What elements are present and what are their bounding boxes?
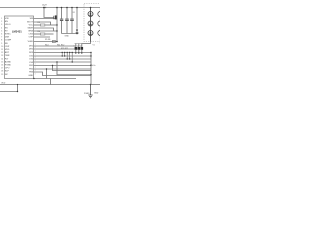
svg-text:R21 R22: R21 R22	[61, 48, 68, 50]
svg-text:V1: V1	[93, 44, 95, 46]
pin wire FB1	[34, 65, 92, 67]
junction dot gnd wire	[33, 78, 34, 79]
pin wire BOOT	[34, 22, 51, 25]
svg-text:18: 18	[1, 71, 3, 73]
svg-text:7: 7	[1, 37, 2, 39]
wire stair branch 3	[46, 69, 48, 79]
svg-text:R14: R14	[45, 44, 48, 46]
wire stair branch 2	[53, 66, 92, 71]
resistor R7	[52, 41, 55, 43]
wire switch node vertical	[56, 8, 58, 42]
bottom rail GND	[0, 84, 100, 86]
svg-text:OVP: OVP	[29, 37, 34, 39]
node VC tick	[91, 64, 93, 66]
pin wire GND bottom	[34, 78, 77, 80]
svg-text:R11 R12: R11 R12	[57, 45, 64, 47]
LED string 2 partial	[98, 8, 103, 42]
wire bottom left return	[0, 85, 18, 92]
wire string1 return	[82, 42, 91, 48]
wire VIN top rail	[0, 7, 100, 9]
svg-text:LM3431: LM3431	[12, 29, 22, 33]
svg-text:8: 8	[1, 40, 2, 42]
pin wire DR2	[34, 48, 78, 50]
svg-text:SLP: SLP	[5, 71, 10, 73]
svg-text:PGND: PGND	[5, 65, 12, 67]
svg-text:UVLO: UVLO	[5, 24, 11, 26]
svg-text:10: 10	[1, 46, 3, 48]
svg-text:VLED: VLED	[28, 41, 34, 43]
svg-text:Vo: Vo	[93, 65, 95, 67]
wire Q3 source	[78, 50, 80, 53]
pin wire CSG w resistor	[34, 33, 41, 35]
svg-text:13: 13	[1, 55, 3, 57]
pin wire GATE	[34, 28, 54, 31]
wire to bottom rail	[50, 79, 52, 85]
junction dot stair1	[56, 61, 57, 62]
svg-text:OVP: OVP	[5, 46, 10, 48]
pin wire CS1	[34, 55, 92, 57]
svg-text:SYNC: SYNC	[5, 34, 11, 36]
capacitor C3	[71, 8, 73, 19]
wire gate drive vertical	[44, 8, 54, 18]
sense taps	[62, 53, 72, 63]
pin wire SW	[34, 18, 58, 20]
svg-text:CPO: CPO	[5, 68, 10, 70]
svg-text:GND: GND	[65, 36, 70, 38]
pin wire CS3	[34, 61, 92, 63]
svg-text:VCC: VCC	[29, 25, 34, 27]
junction dots sense row	[62, 52, 63, 53]
junction dot stair2	[52, 65, 53, 66]
svg-text:NC: NC	[5, 74, 9, 76]
junction dot bottom left	[17, 91, 18, 92]
wire string2 return	[99, 42, 101, 44]
pin wire FB3	[34, 72, 92, 76]
ground	[88, 85, 92, 98]
svg-text:GND: GND	[94, 93, 99, 95]
svg-text:PGND: PGND	[84, 93, 90, 95]
svg-text:17: 17	[1, 68, 3, 70]
wire Q4 source	[81, 50, 83, 53]
svg-text:GND: GND	[28, 75, 33, 77]
LED string 1	[88, 8, 93, 42]
svg-text:DIM: DIM	[5, 37, 9, 39]
dashed box LED array	[84, 4, 101, 42]
svg-text:6: 6	[1, 34, 2, 36]
transistor Q3	[78, 47, 81, 50]
svg-text:11: 11	[1, 49, 3, 51]
wire ground bus	[62, 33, 79, 35]
transistor Q4	[81, 47, 84, 50]
pin wire ISNS	[34, 30, 58, 32]
IC U1 LM3431	[5, 16, 34, 79]
svg-text:BRT: BRT	[5, 52, 10, 54]
pin wire FB2	[34, 68, 92, 70]
svg-text:VDD: VDD	[5, 49, 10, 51]
svg-text:GATE: GATE	[27, 27, 33, 30]
svg-text:14: 14	[1, 58, 3, 60]
svg-text:16: 16	[1, 65, 3, 67]
svg-text:1: 1	[1, 18, 2, 20]
pin wire OVP	[34, 36, 51, 38]
zener D2	[76, 8, 78, 29]
svg-text:12: 12	[1, 52, 3, 54]
junction dot zener-bus	[76, 33, 78, 35]
svg-text:CSG: CSG	[28, 34, 33, 36]
svg-text:19: 19	[1, 74, 3, 76]
junction dot SW-VLED	[56, 41, 58, 43]
value labels	[1, 4, 99, 95]
pin wire VCC w resistor	[34, 24, 41, 26]
svg-text:R4: R4	[38, 31, 40, 33]
svg-text:ISNS: ISNS	[28, 31, 33, 33]
resistor R1	[40, 24, 45, 26]
junction dots top rail	[17, 7, 92, 93]
capacitor C1	[61, 8, 63, 19]
svg-text:VIN: VIN	[5, 18, 9, 20]
svg-text:9: 9	[1, 43, 2, 45]
pin wire CS2	[34, 58, 92, 60]
svg-text:Q1 Q2 Q3: Q1 Q2 Q3	[74, 45, 83, 47]
junction dots fet sources	[75, 52, 76, 53]
wire Q2 source	[75, 50, 77, 53]
transistor Q1 boost FET	[54, 15, 57, 19]
svg-text:4: 4	[1, 27, 2, 29]
pin wire DR1	[34, 45, 75, 47]
junction dot stair3	[46, 68, 47, 69]
svg-text:2: 2	[1, 21, 2, 23]
svg-text:EN: EN	[5, 21, 8, 23]
svg-text:SW: SW	[30, 18, 33, 20]
pin wire VLED	[34, 41, 58, 43]
svg-text:15: 15	[1, 61, 3, 63]
svg-text:R5 R6: R5 R6	[45, 39, 50, 41]
svg-text:R3: R3	[38, 22, 40, 24]
capacitor C2	[66, 8, 68, 19]
resistor R2	[40, 33, 45, 35]
svg-text:10µH: 10µH	[42, 4, 47, 6]
pin wire DR3	[34, 52, 92, 54]
svg-text:3: 3	[1, 24, 2, 26]
wire stair branch 1	[57, 62, 91, 75]
svg-text:AGND: AGND	[5, 60, 12, 63]
svg-text:D1: D1	[73, 12, 75, 14]
svg-text:BOOT: BOOT	[27, 22, 34, 24]
svg-text:2: 2	[35, 74, 36, 76]
transistor Q2	[75, 47, 78, 50]
svg-text:5: 5	[1, 30, 2, 32]
svg-text:COMP: COMP	[5, 40, 12, 42]
vertical bus right	[90, 53, 92, 85]
inductor L1	[43, 7, 46, 9]
svg-text:VDD: VDD	[1, 82, 6, 84]
svg-text:TMR: TMR	[5, 55, 10, 57]
